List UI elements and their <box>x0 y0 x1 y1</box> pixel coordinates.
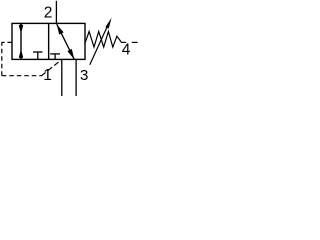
port 2 line (top) <box>55 1 57 24</box>
pilot line dashed: diagonal up to port 1 junction <box>41 60 61 76</box>
svg-text:4: 4 <box>122 42 131 59</box>
adjustment arrow through spring <box>90 18 112 65</box>
port 4 dashed line: dash 2 <box>132 41 138 43</box>
pilot line dashed: horizontal bottom <box>2 75 42 77</box>
double-headed vertical arrow (left position flow path) <box>19 24 23 60</box>
svg-text:3: 3 <box>80 67 88 84</box>
svg-text:1: 1 <box>43 67 52 84</box>
blocked port T (right position) <box>50 54 60 60</box>
position divider <box>48 23 50 59</box>
spring (right side) <box>85 32 121 48</box>
blocked port T (left position) <box>33 52 43 59</box>
port 3 line (bottom) <box>75 59 77 96</box>
port 1 line (bottom) <box>61 59 63 96</box>
double-headed diagonal arrow (right position flow path) <box>57 24 75 59</box>
valve envelope box <box>12 23 85 59</box>
pilot line dashed: vertical left <box>1 42 3 75</box>
pilot line dashed: stub from left edge <box>2 41 12 43</box>
port 4 dashed line: dash 1 <box>121 41 126 43</box>
svg-text:2: 2 <box>44 4 53 21</box>
